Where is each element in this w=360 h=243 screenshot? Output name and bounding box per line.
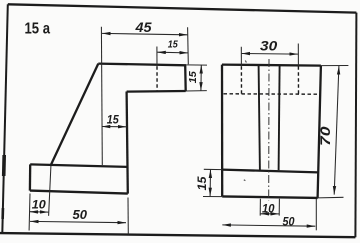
side view: base bottom edge [30,191,128,194]
frame left border [2,4,8,233]
svg-text:15: 15 [188,71,199,83]
side view: vertical dimension line 15 right [200,65,202,91]
side view: step bottom edge of flange [127,90,186,93]
front view: base top edge [222,170,318,173]
side view: dimension line 15 top [157,51,188,54]
left border thickened scan mark lower [1,208,4,219]
side view: step edge thin extension right [186,90,207,92]
side view: dimension line 10 [30,211,49,213]
front view: extension line right of 10 dim [278,199,280,216]
front view: extension line left of 10 dim [259,199,261,216]
side view: right edge of top flange [184,65,187,91]
front view: centerline dash-dot [268,59,270,200]
side view: extension line left of 45 dim, down to base [100,27,103,165]
front view: base top thin extension left for 15 dim [204,168,222,170]
speck above front view top edge [245,61,246,63]
svg-text:70: 70 [318,126,333,146]
side view: hidden dashed line in flange [156,66,158,90]
svg-text:15: 15 [168,40,178,51]
front view: dimension line 30 [242,53,298,56]
side view: top edge [98,64,186,66]
front view: hidden dashed vertical right [297,66,299,94]
front view: right edge [318,66,321,198]
front view: top edge [222,65,321,66]
side view: extension line left shared 10/50 dims [28,194,31,231]
front view: left edge [221,65,223,197]
front view: hidden dashed vertical left [240,66,242,94]
svg-text:15: 15 [197,176,209,191]
svg-text:10: 10 [32,198,46,212]
front view: buttress left visible edge [259,66,260,170]
front view: dimension line 50 [222,225,315,226]
side view: extension line right of 50 dim [127,198,129,235]
front view: extension line right of 30 dim [297,44,299,67]
side view: extension line right of 45/15 dims [187,27,190,64]
svg-text:50: 50 [73,207,88,222]
front view: extension line left of 30 dim [240,47,242,66]
front view: extension line right of 50 dim [315,199,317,230]
side view: wall right edge [127,92,128,194]
svg-text:45: 45 [134,19,151,35]
front view: hidden dashed flange bottom edge [224,93,320,95]
front view: dimension line 10 [261,213,279,215]
svg-text:15: 15 [107,113,119,127]
side view: dimension line 45 [102,33,187,34]
svg-text:15 a: 15 a [25,21,51,38]
front view: base bottom thin extension right for 70 dim [318,196,344,199]
front view: base bottom edge [222,196,318,198]
side view: base top edge [30,164,127,167]
svg-text:50: 50 [283,215,295,229]
side view: extension line of top 15 dim [156,47,158,67]
side view: slanted edge [51,64,99,166]
front view: buttress right visible edge [279,66,280,170]
frame bottom border [0,233,355,237]
svg-text:30: 30 [260,38,277,54]
front view: top edge thin extension right for 70 dim [321,65,349,67]
side view: dimension line 50 [30,221,126,222]
left border thickened scan mark upper [2,155,6,176]
front view: dimension line 15 left [209,170,211,197]
frame right border [355,13,356,238]
front view: dimension line 70 [334,66,339,195]
side view: dimension line 15 mid step [102,126,127,128]
svg-text:10: 10 [262,204,275,216]
speck inside front view base [244,179,246,182]
front view: base bottom thin extension left for 15 dim [203,196,222,198]
frame top border [8,4,357,12]
side view: base left edge [29,164,32,190]
side view: extension line right of 10 dim from slant foot [49,166,51,216]
side view: top edge thin extension right [186,64,207,66]
